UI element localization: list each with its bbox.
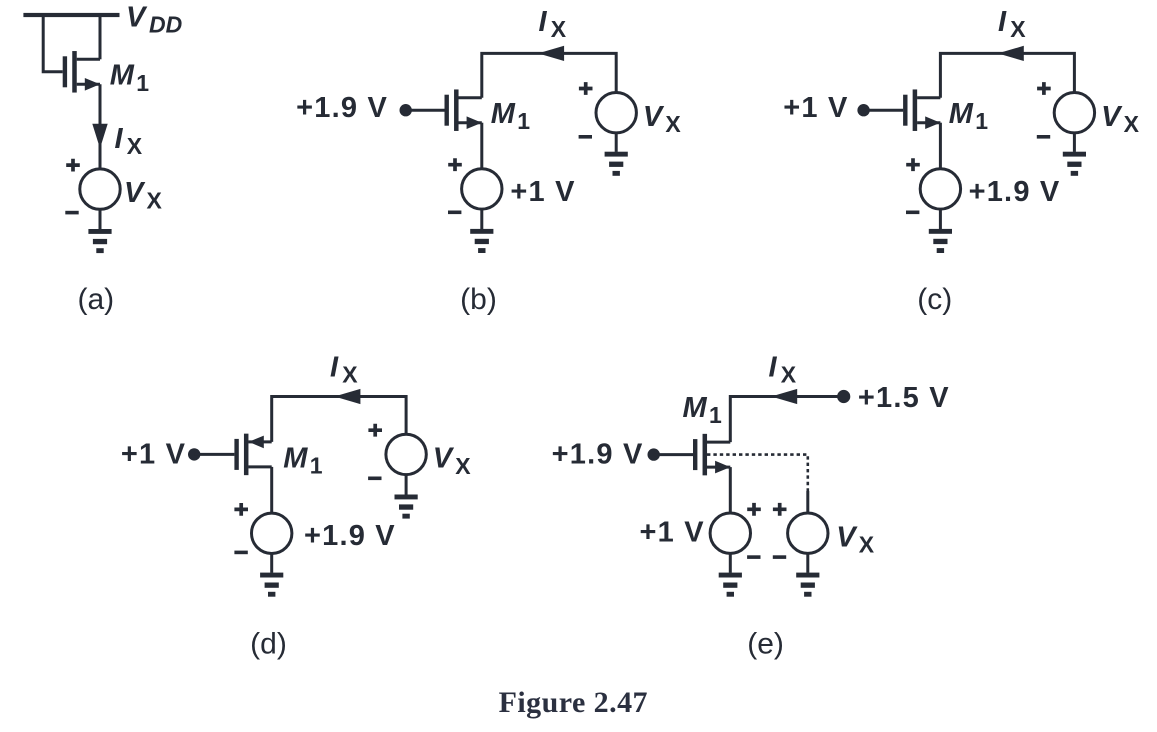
minus of VX source (e) — [773, 555, 786, 559]
voltage source VX (a) — [80, 169, 120, 209]
transistor M1 (e) — [693, 434, 730, 476]
VX label (a) — [124, 177, 163, 213]
svg-text:I: I — [539, 6, 548, 38]
svg-text:M: M — [491, 98, 516, 130]
voltage source +1.9V (d) — [252, 513, 292, 553]
gate node dot (e) — [648, 448, 660, 460]
svg-text:X: X — [551, 16, 567, 42]
M1 label (a) — [110, 60, 150, 96]
svg-text:1: 1 — [975, 108, 988, 134]
M1 label (e) — [683, 392, 723, 428]
minus of +1V source (e) — [747, 555, 760, 559]
plus of +1V source (e) — [747, 503, 761, 516]
ground under VX (b) — [605, 152, 628, 176]
IX label (c) — [998, 6, 1026, 42]
svg-text:M: M — [283, 442, 308, 474]
svg-text:X: X — [147, 188, 163, 214]
svg-text:X: X — [455, 453, 471, 479]
gate node dot (c) — [857, 104, 869, 116]
svg-text:I: I — [998, 6, 1007, 38]
svg-text:+1 V: +1 V — [640, 517, 705, 549]
IX label (d) — [330, 352, 358, 388]
VX label (c) — [1101, 101, 1140, 137]
wire source down to +1.9V source (c) — [939, 123, 942, 169]
voltage source +1V (b) — [462, 169, 502, 209]
VDD label — [126, 1, 182, 37]
IX label (e) — [769, 352, 797, 388]
svg-text:1: 1 — [709, 402, 722, 428]
current IX arrow (d) — [334, 389, 360, 404]
IX label (a) — [115, 123, 143, 159]
voltage source VX (d) — [386, 434, 426, 474]
circuit (d) — [121, 352, 471, 661]
wire source up and top wire to VX (d) — [272, 397, 406, 442]
minus of VX (b) — [579, 135, 592, 139]
wire +1V source to ground (b) — [480, 209, 483, 229]
svg-text:M: M — [949, 98, 974, 130]
minus of VX (a) — [65, 211, 78, 215]
svg-text:+1.9 V: +1.9 V — [296, 92, 388, 124]
minus of VX (c) — [1037, 135, 1050, 139]
wire VX to ground (e) — [806, 553, 809, 572]
plus of VX source (e) — [773, 503, 787, 516]
circuit (c) — [783, 6, 1139, 316]
svg-text:Figure 2.47: Figure 2.47 — [499, 686, 648, 719]
gate wire (c) — [864, 109, 904, 112]
plus of +1.9V source (d) — [234, 503, 248, 516]
ground under VX (c) — [1063, 152, 1086, 176]
svg-text:X: X — [1124, 111, 1140, 137]
wire drain up and top wire to +1.5V node (e) — [730, 397, 843, 443]
circuit (a) — [23, 1, 182, 316]
VDD rail — [23, 13, 119, 17]
ground under +1V source (e) — [719, 573, 742, 597]
svg-text:+1.5 V: +1.5 V — [858, 382, 950, 414]
IX label (b) — [539, 6, 567, 42]
gate wire (d) — [194, 453, 234, 456]
transistor M1 (c) — [903, 89, 940, 131]
plus of +1V source (b) — [448, 158, 462, 171]
VX label (d) — [433, 443, 472, 479]
svg-text:1: 1 — [310, 452, 323, 478]
svg-text:M: M — [110, 60, 135, 92]
M1 label (c) — [949, 98, 989, 134]
plus of VX (b) — [579, 82, 593, 95]
svg-text:+1.9 V: +1.9 V — [304, 520, 396, 552]
transistor M1 (b) — [445, 89, 482, 131]
plus of VX (d) — [368, 424, 382, 437]
ground under +1V source (b) — [470, 229, 493, 253]
wire drain up and top wire to VX (c) — [940, 53, 1074, 97]
current IX arrow (e) — [771, 389, 797, 404]
svg-text:I: I — [769, 352, 778, 384]
svg-text:(d): (d) — [250, 627, 287, 660]
minus of +1.9V source (c) — [906, 211, 919, 215]
current IX arrow (c) — [998, 46, 1024, 61]
circuit (e) — [552, 352, 950, 661]
svg-text:V: V — [1101, 101, 1123, 133]
minus of +1.9V source (d) — [234, 551, 247, 555]
wire source down to +1V source (b) — [480, 123, 483, 169]
gate wire (e) — [654, 453, 693, 456]
wire drain up and top wire to VX (b) — [482, 53, 616, 97]
wire VX to ground (a) — [99, 209, 102, 229]
voltage source VX (c) — [1054, 93, 1094, 133]
wire drain down to +1.9V source (d) — [270, 467, 273, 513]
wire VX to ground (c) — [1073, 133, 1076, 152]
plus of VX (a) — [66, 159, 80, 172]
wire source down to +1V source (e) — [729, 467, 732, 513]
voltage source +1V (e) — [710, 513, 750, 553]
svg-text:X: X — [342, 362, 358, 388]
current IX arrow (a) — [92, 124, 107, 149]
M1 label (b) — [491, 98, 531, 134]
wire +1.9V source to ground (c) — [939, 209, 942, 229]
svg-text:X: X — [665, 111, 681, 137]
VX label (b) — [643, 101, 682, 137]
svg-text:V: V — [643, 101, 665, 133]
transistor M1 (a) — [63, 51, 100, 93]
svg-text:M: M — [683, 392, 708, 424]
svg-text:1: 1 — [136, 70, 149, 96]
transistor M1 (d) — [234, 434, 271, 476]
minus of VX (d) — [368, 476, 381, 480]
svg-text:DD: DD — [149, 11, 182, 37]
current IX arrow (b) — [538, 46, 564, 61]
svg-text:V: V — [126, 1, 148, 33]
wire drain to VDD rail — [99, 16, 102, 59]
wire +1V source to ground (e) — [729, 553, 732, 572]
wire dashed end to VX (e) — [806, 491, 809, 513]
svg-text:V: V — [124, 177, 146, 209]
svg-text:(c): (c) — [917, 283, 952, 316]
voltage source +1.9V (c) — [920, 169, 960, 209]
voltage source VX (b) — [596, 93, 636, 133]
wire source down to VX — [99, 84, 102, 169]
svg-text:+1 V: +1 V — [510, 176, 575, 208]
wire VX to ground (d) — [405, 475, 408, 495]
svg-text:X: X — [1010, 16, 1026, 42]
ground under +1.9V source (c) — [929, 229, 952, 253]
wire VX to ground (b) — [615, 133, 618, 152]
gate wire (b) — [406, 109, 445, 112]
minus of +1V source (b) — [448, 211, 461, 215]
ground under +1.9V source (d) — [260, 573, 283, 597]
ground (a) — [88, 229, 111, 253]
svg-text:I: I — [330, 352, 339, 384]
ground under VX (e) — [796, 573, 819, 597]
ground under VX (d) — [395, 495, 418, 519]
svg-text:I: I — [115, 123, 124, 155]
+1.5V node dot (e) — [837, 390, 850, 403]
svg-text:+1 V: +1 V — [121, 439, 186, 471]
svg-text:(e): (e) — [747, 627, 784, 660]
svg-text:X: X — [781, 362, 797, 388]
svg-text:X: X — [859, 532, 875, 558]
gate node dot (b) — [400, 104, 412, 116]
svg-text:V: V — [433, 443, 455, 475]
plus of +1.9V source (c) — [906, 158, 920, 171]
svg-text:+1.9 V: +1.9 V — [969, 176, 1061, 208]
svg-text:(a): (a) — [77, 283, 114, 316]
svg-text:V: V — [836, 521, 858, 553]
dashed bulk wire (e) — [707, 455, 808, 491]
gate node dot (d) — [188, 448, 200, 460]
VX label (e) — [836, 521, 875, 557]
circuit (b) — [296, 6, 681, 316]
svg-text:1: 1 — [517, 108, 530, 134]
wire gate to VDD rail — [43, 16, 63, 72]
wire +1.9V source to ground (d) — [270, 554, 273, 573]
M1 label (d) — [283, 442, 323, 478]
svg-text:+1 V: +1 V — [783, 92, 848, 124]
svg-text:+1.9 V: +1.9 V — [552, 439, 644, 471]
svg-text:(b): (b) — [460, 283, 497, 316]
plus of VX (c) — [1037, 82, 1051, 95]
voltage source VX (e) — [788, 513, 828, 553]
svg-text:X: X — [127, 133, 143, 159]
